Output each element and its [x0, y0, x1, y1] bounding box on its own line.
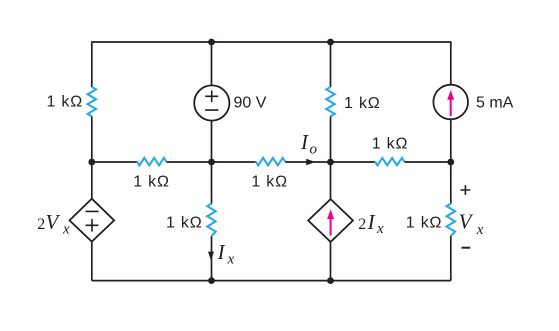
- current arrow Io: [306, 159, 315, 166]
- junction bottom at x=211.5: [208, 277, 215, 284]
- svg-text:I: I: [217, 240, 226, 264]
- wire top rail: [92, 41, 451, 43]
- svg-text:x: x: [227, 251, 235, 267]
- junction bottom at x=330.5: [327, 277, 334, 284]
- svg-text:1 kΩ: 1 kΩ: [344, 95, 381, 112]
- svg-text:o: o: [310, 141, 318, 157]
- junction top at x=330.5: [327, 39, 334, 46]
- current source 5mA: [433, 85, 468, 120]
- resistor 1kOhm mid-left horizontal: [137, 158, 166, 165]
- svg-text:V: V: [459, 210, 474, 234]
- label 2Vx: [37, 210, 70, 237]
- wire right rail: [450, 41, 452, 280]
- svg-text:1 kΩ: 1 kΩ: [372, 135, 409, 152]
- svg-text:V: V: [46, 210, 61, 234]
- resistor 1kOhm mid-right horizontal: [375, 158, 404, 165]
- svg-text:1 kΩ: 1 kΩ: [166, 215, 203, 232]
- svg-text:1 kΩ: 1 kΩ: [133, 174, 170, 191]
- wire branch x=330.5: [330, 42, 332, 281]
- label Io: [300, 130, 318, 157]
- svg-text:x: x: [376, 221, 384, 237]
- svg-text:I: I: [300, 130, 309, 154]
- voltage source 90V: [194, 85, 229, 120]
- resistor 1kOhm mid-center horizontal: [256, 158, 285, 165]
- dependent voltage source 2Vx: [70, 199, 115, 242]
- label Ix: [217, 240, 235, 267]
- junction middle at x=450.8: [447, 159, 454, 166]
- resistor 1kOhm top-left vertical: [88, 87, 96, 116]
- resistor 1kOhm bottom-right vertical: [447, 204, 455, 236]
- resistor 1kOhm bottom-center vertical: [207, 204, 215, 236]
- wire bottom rail: [92, 280, 451, 282]
- junction middle at x=330.5: [327, 159, 334, 166]
- svg-text:1 kΩ: 1 kΩ: [406, 215, 443, 232]
- svg-text:2: 2: [358, 216, 366, 233]
- plus sign Vx polarity: [461, 185, 471, 195]
- minus sign Vx polarity: [462, 247, 471, 249]
- svg-text:I: I: [367, 210, 376, 234]
- label 2Ix: [358, 210, 384, 237]
- wire left rail: [91, 41, 93, 280]
- resistor 1kOhm top-center vertical: [326, 87, 334, 116]
- svg-text:2: 2: [37, 216, 45, 233]
- svg-text:1 kΩ: 1 kΩ: [251, 173, 288, 190]
- wire branch x=211.5: [211, 42, 213, 281]
- svg-text:1 kΩ: 1 kΩ: [46, 94, 83, 111]
- junction middle at x=91.8: [88, 159, 95, 166]
- current arrow Ix: [208, 252, 214, 261]
- dependent current source 2Ix: [308, 199, 353, 242]
- svg-text:5 mA: 5 mA: [476, 95, 514, 112]
- svg-text:90 V: 90 V: [234, 95, 267, 112]
- svg-text:x: x: [62, 221, 70, 237]
- junction middle at x=211.5: [208, 159, 215, 166]
- wire middle rail: [92, 161, 451, 163]
- label Vx: [459, 210, 484, 238]
- junction top at x=211.5: [208, 39, 215, 46]
- svg-text:x: x: [476, 222, 484, 238]
